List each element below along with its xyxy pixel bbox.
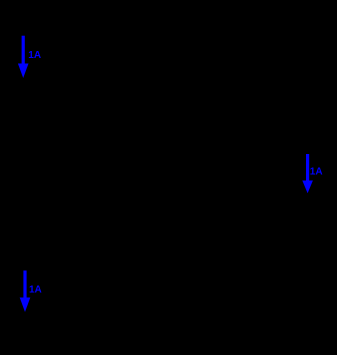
- current arrow I1 (left rail, pointing down): [18, 36, 29, 78]
- wire: middle branch upper: [164, 20, 166, 150]
- resistor R2 (right rail): [301, 60, 313, 102]
- wire: bottom rail: [24, 334, 307, 336]
- current arrow I2 (right rail, pointing down): [302, 154, 313, 193]
- resistor R3 (middle branch): [159, 150, 171, 192]
- wire: middle branch lower: [164, 192, 166, 335]
- wire: left rail upper segment (carries current I1): [23, 20, 25, 190]
- wire: top rail from node A to node B: [24, 19, 307, 21]
- svg-text:1A: 1A: [28, 50, 41, 61]
- wire: right rail upper segment: [306, 20, 308, 60]
- wire: left rail lower segment (carries current I3): [23, 230, 25, 335]
- node B (bottom of middle branch): [163, 333, 168, 338]
- battery V1 (left rail): [14, 190, 34, 230]
- svg-text:1A: 1A: [310, 166, 323, 177]
- node A (top of middle branch): [163, 18, 168, 23]
- current arrow I3 (left rail lower, pointing down): [20, 271, 31, 313]
- wire: right rail middle segment (carries current I2): [306, 102, 308, 335]
- svg-text:1A: 1A: [29, 284, 42, 295]
